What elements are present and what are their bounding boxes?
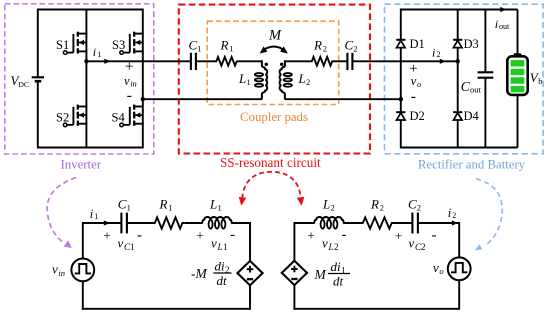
label iout xyxy=(495,17,510,31)
capacitor C2 top xyxy=(347,53,352,70)
diode D3 xyxy=(453,40,462,48)
svg-text:L: L xyxy=(209,197,217,212)
label C2 loop2 xyxy=(408,197,421,213)
inductor L1 coil xyxy=(262,60,267,99)
wire leg battery lower xyxy=(517,95,519,148)
node A junction dot xyxy=(84,59,88,63)
resistor R1 top xyxy=(215,57,239,66)
svg-text:v: v xyxy=(52,262,58,277)
wire L2 to R2 xyxy=(285,60,310,62)
inductor L2 loop2 xyxy=(314,217,344,224)
wire L2 bottom to rectifier xyxy=(285,98,401,100)
transistor S4 xyxy=(120,105,144,127)
label +vC2- xyxy=(395,228,437,253)
svg-text:C: C xyxy=(345,38,354,53)
wire loop1 top xyxy=(83,222,121,224)
wire node B to S4 drain xyxy=(142,99,144,106)
svg-text:1: 1 xyxy=(168,203,172,213)
svg-text:2: 2 xyxy=(452,211,456,220)
svg-text:2: 2 xyxy=(331,203,335,213)
svg-text:2: 2 xyxy=(437,50,441,59)
diode D4 xyxy=(453,112,462,120)
svg-text:S1: S1 xyxy=(56,38,69,52)
svg-text:i: i xyxy=(448,206,452,220)
svg-text:v: v xyxy=(118,236,124,251)
svg-text:-: - xyxy=(137,228,142,244)
svg-text:S2: S2 xyxy=(56,110,69,124)
dependent source -Mdi2/dt diamond xyxy=(237,261,262,285)
svg-text:L: L xyxy=(322,197,330,212)
label vo bottom xyxy=(433,260,444,276)
svg-text:v: v xyxy=(411,74,417,88)
svg-text:1: 1 xyxy=(229,43,233,53)
diode D1 xyxy=(396,40,405,48)
label i2 top xyxy=(432,45,441,59)
wire rectifier bottom rail xyxy=(401,147,518,149)
svg-text:v: v xyxy=(211,236,217,251)
svg-text:out: out xyxy=(499,22,510,31)
wire diamond1 to loop1 bottom xyxy=(249,285,251,310)
arrow i1 loop1 xyxy=(104,220,110,225)
label +vC1- xyxy=(103,228,142,253)
label +vL2- xyxy=(307,227,346,252)
svg-text:Inverter: Inverter xyxy=(61,158,102,172)
svg-text:R: R xyxy=(313,38,322,53)
transistor S1 xyxy=(63,32,87,55)
svg-text:dt: dt xyxy=(217,273,228,288)
svg-text:1: 1 xyxy=(197,43,201,53)
label vin bottom xyxy=(52,262,65,278)
wire S2 source to bottom rail xyxy=(85,124,87,149)
label M di1/dt xyxy=(314,259,351,288)
svg-text:2: 2 xyxy=(380,203,384,213)
label L1 top xyxy=(238,71,251,87)
svg-text:S3: S3 xyxy=(112,38,125,52)
svg-text:1: 1 xyxy=(97,50,101,59)
svg-text:+: + xyxy=(103,228,110,243)
node dot vo- on leg D1/D2 xyxy=(399,97,403,101)
svg-text:v: v xyxy=(409,236,415,251)
svg-text:-: - xyxy=(432,228,437,244)
wire S1 source to node A xyxy=(85,51,87,62)
svg-text:DC: DC xyxy=(18,80,29,89)
label vo xyxy=(411,74,422,89)
dashed arrow from Inverter label to vin source xyxy=(47,178,76,249)
transistor S2 xyxy=(63,105,87,127)
wire C2 to rectifier node xyxy=(353,60,458,62)
node B junction dot xyxy=(141,97,145,101)
svg-text:in: in xyxy=(58,268,65,278)
wire leg D1/D2 xyxy=(400,9,402,149)
svg-text:M: M xyxy=(314,267,327,282)
wire rectifier top rail xyxy=(401,9,518,11)
mutual inductance arrow M xyxy=(260,46,288,53)
svg-text:-: - xyxy=(127,87,132,104)
svg-text:R: R xyxy=(370,197,379,212)
capacitor C1 loop1 xyxy=(121,213,127,234)
svg-text:Coupler pads: Coupler pads xyxy=(240,110,308,124)
svg-text:-M: -M xyxy=(191,266,207,281)
label i1 top xyxy=(93,45,102,59)
svg-text:i: i xyxy=(90,207,94,221)
svg-text:C: C xyxy=(118,197,127,212)
source vin circle xyxy=(71,259,94,282)
svg-text:+: + xyxy=(395,228,402,243)
wire leg B upper xyxy=(142,9,144,34)
wire node A to C1 xyxy=(86,60,190,62)
svg-text:1: 1 xyxy=(218,203,222,213)
svg-text:1: 1 xyxy=(247,77,251,87)
svg-text:-: - xyxy=(342,227,347,243)
inductor L1 loop1 xyxy=(202,217,232,224)
svg-text:-: - xyxy=(411,88,416,105)
wire left rail lower xyxy=(37,81,39,148)
dependent source Mdi1/dt diamond xyxy=(282,261,307,285)
svg-text:1: 1 xyxy=(94,212,98,221)
svg-text:2: 2 xyxy=(334,242,339,252)
wire L1 bottom to node B xyxy=(143,98,262,100)
label -M di2/dt xyxy=(191,259,232,288)
wire left rail upper xyxy=(37,9,39,77)
svg-text:D1: D1 xyxy=(410,37,425,51)
svg-text:i: i xyxy=(495,17,498,31)
label R2 loop2 xyxy=(370,197,384,213)
wire leg Cout lower xyxy=(484,78,486,147)
svg-text:2: 2 xyxy=(353,43,357,53)
svg-text:v: v xyxy=(433,260,439,275)
svg-text:b: b xyxy=(538,76,542,86)
wire inverter bottom rail xyxy=(38,147,143,149)
arrow iout xyxy=(500,7,506,12)
wire vo to loop2 bottom xyxy=(458,280,460,310)
arrow i1 on vin+ wire xyxy=(104,59,110,64)
transistor S3 xyxy=(120,32,144,55)
label Cout xyxy=(461,79,482,95)
svg-text:C: C xyxy=(189,38,198,53)
wire leg D3/D4 xyxy=(457,9,459,149)
svg-text:+: + xyxy=(307,228,314,243)
svg-text:L: L xyxy=(217,242,223,252)
label VDC xyxy=(11,73,30,89)
svg-text:1: 1 xyxy=(130,242,135,252)
rectifier and battery dashed box xyxy=(385,4,544,154)
svg-text:di: di xyxy=(215,259,226,274)
svg-text:2: 2 xyxy=(421,242,426,252)
svg-text:v: v xyxy=(124,74,130,88)
wire leg Cout upper xyxy=(484,10,486,72)
svg-text:i: i xyxy=(93,45,96,59)
svg-text:D4: D4 xyxy=(464,109,480,123)
wire S3 source to node B xyxy=(142,51,144,99)
arrow i2 loop2 xyxy=(452,220,458,225)
label vin xyxy=(124,74,137,89)
source vo circle xyxy=(448,257,471,280)
wire R2 to C2 xyxy=(334,60,347,62)
svg-text:+: + xyxy=(196,228,203,243)
diode D2 xyxy=(396,112,405,120)
svg-text:D2: D2 xyxy=(410,109,425,123)
label i1 bottom xyxy=(90,207,99,221)
svg-text:v: v xyxy=(322,236,328,251)
svg-text:di: di xyxy=(331,259,342,274)
svg-text:D3: D3 xyxy=(464,37,479,51)
wire vin to loop1 bottom xyxy=(82,281,84,310)
svg-text:SS-resonant circuit: SS-resonant circuit xyxy=(220,155,321,170)
svg-text:R: R xyxy=(220,38,229,53)
label C1 top xyxy=(189,38,202,54)
label +vL1- xyxy=(196,227,235,252)
svg-text:Rectifier and Battery: Rectifier and Battery xyxy=(418,157,526,171)
node dot i2 on leg D3/D4 xyxy=(456,59,460,63)
wire leg A upper xyxy=(85,9,87,34)
wire R1 to L1 xyxy=(239,60,263,62)
svg-text:-: - xyxy=(230,227,235,243)
svg-text:M: M xyxy=(268,28,282,44)
svg-text:i: i xyxy=(432,45,435,59)
wire loop1 right vertical xyxy=(249,222,251,261)
capacitor C1 top xyxy=(191,53,196,70)
arrow i2 on wire xyxy=(440,59,446,64)
label R2 top xyxy=(313,38,327,54)
wire diamond2 to loop2 bottom xyxy=(293,285,295,310)
battery Vb icon xyxy=(507,53,527,95)
svg-text:o: o xyxy=(439,266,443,276)
svg-text:2: 2 xyxy=(417,203,421,213)
svg-text:C: C xyxy=(408,197,417,212)
label C1 loop1 xyxy=(118,197,131,213)
label R1 loop1 xyxy=(159,197,173,213)
dashed arch arrow from SS-resonant label to both loops xyxy=(239,172,305,206)
wire loop1 left vertical xyxy=(82,222,84,259)
label i2 bottom xyxy=(448,206,457,220)
svg-text:1: 1 xyxy=(127,203,131,213)
resistor R2 top xyxy=(310,57,334,66)
resistor R1 loop1 xyxy=(153,217,184,228)
inductor L2 coil xyxy=(280,60,285,99)
wire loop2 left vertical xyxy=(293,222,295,261)
svg-text:S4: S4 xyxy=(112,110,126,124)
wire C1 to R1 xyxy=(197,60,215,62)
svg-text:dt: dt xyxy=(333,273,344,288)
svg-text:out: out xyxy=(470,85,482,95)
wire leg battery upper xyxy=(517,10,519,56)
label L2 loop2 xyxy=(322,197,335,213)
wire loop2 top xyxy=(294,222,315,224)
polarity dot L2 xyxy=(280,63,283,66)
label Vb xyxy=(530,70,543,86)
label L1 loop1 xyxy=(209,197,222,213)
wire node A to S2 drain xyxy=(85,61,87,106)
dashed arrow from Rectifier label to vo source xyxy=(475,179,502,251)
svg-text:R: R xyxy=(159,197,168,212)
capacitor C2 loop2 xyxy=(412,213,418,234)
capacitor Cout xyxy=(478,72,494,77)
SS-resonant circuit dashed box xyxy=(179,5,370,154)
label L2 top xyxy=(298,71,311,87)
svg-text:L: L xyxy=(238,71,246,86)
resistor R2 loop2 xyxy=(361,217,394,228)
label R1 top xyxy=(220,38,234,54)
wire inverter top rail xyxy=(38,9,143,11)
svg-text:2: 2 xyxy=(306,77,310,87)
svg-text:2: 2 xyxy=(323,43,327,53)
label C2 top xyxy=(345,38,358,54)
svg-text:o: o xyxy=(417,79,421,89)
wire S4 source to bottom rail xyxy=(142,124,144,149)
polarity dot L1 xyxy=(265,63,268,66)
svg-text:1: 1 xyxy=(223,242,228,252)
wire loop2 right vertical xyxy=(458,222,460,257)
svg-text:L: L xyxy=(298,71,306,86)
coupler pads dashed box xyxy=(207,21,339,104)
inverter dashed box xyxy=(5,4,154,154)
battery VDC xyxy=(32,77,44,81)
svg-text:L: L xyxy=(328,242,334,252)
